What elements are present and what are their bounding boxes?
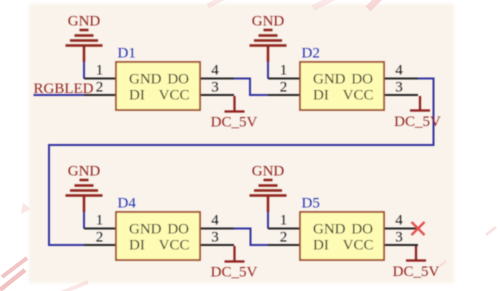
svg-text:GND: GND bbox=[252, 13, 285, 29]
svg-text:D2: D2 bbox=[302, 45, 320, 61]
svg-text:D5: D5 bbox=[302, 195, 320, 211]
svg-text:DC_5V: DC_5V bbox=[211, 265, 258, 281]
svg-text:GND: GND bbox=[68, 163, 101, 179]
svg-text:DC_5V: DC_5V bbox=[393, 264, 440, 280]
svg-text:DC_5V: DC_5V bbox=[394, 114, 441, 130]
svg-text:GND: GND bbox=[252, 163, 285, 179]
svg-text:GND: GND bbox=[68, 13, 101, 29]
svg-text:DC_5V: DC_5V bbox=[211, 115, 258, 131]
svg-text:D1: D1 bbox=[118, 45, 136, 61]
svg-text:RGBLED: RGBLED bbox=[34, 81, 94, 97]
svg-text:D4: D4 bbox=[118, 195, 137, 211]
